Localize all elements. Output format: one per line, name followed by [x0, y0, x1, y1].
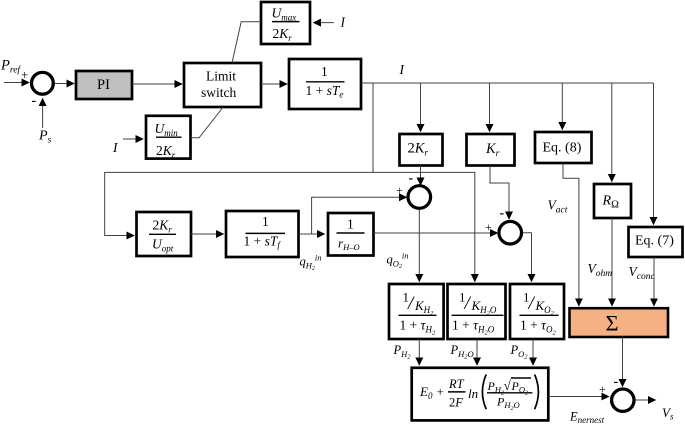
- svg-text:1 + sTe: 1 + sTe: [306, 83, 344, 100]
- svg-text:Vconc: Vconc: [629, 264, 656, 282]
- wire 2Kr/Uopt to 1/(1+sTf): [191, 233, 224, 235]
- block H2 transfer (1/KH2)/(1+tauH2): [389, 284, 444, 339]
- block 2Kr: [400, 134, 443, 166]
- wire I drop into R ohm: [611, 83, 613, 182]
- svg-text:RT: RT: [448, 377, 465, 391]
- svg-text:Ps: Ps: [38, 129, 52, 146]
- wire Eq7 output Vconc into Sigma: [653, 257, 655, 306]
- summing junction S3: [499, 221, 522, 244]
- block 1/(1+sTf): [226, 211, 299, 257]
- block 1/rH-O: [328, 213, 374, 256]
- svg-text:+: +: [396, 183, 403, 197]
- svg-text:PH2O: PH2O: [450, 343, 474, 361]
- svg-text:+: +: [599, 382, 606, 396]
- svg-text:1: 1: [347, 217, 354, 232]
- svg-text:qH2in: qH2in: [300, 253, 322, 273]
- wire P_ref into summing junction: [4, 82, 29, 84]
- wire S4 output Vs: [636, 399, 656, 401]
- wire P_s into S1: [42, 99, 44, 129]
- svg-text:PH2: PH2: [393, 343, 412, 361]
- wire I drop into Kr: [489, 83, 491, 132]
- summing junction S2: [408, 186, 431, 209]
- block O2 transfer (1/KO2)/(1+tauO2): [510, 284, 564, 339]
- block Umax/2Kr: [261, 2, 310, 44]
- block Sigma summation: [570, 308, 669, 337]
- svg-text:PI: PI: [97, 77, 110, 93]
- svg-text:Enernest: Enernest: [569, 410, 605, 424]
- svg-text:Eq. (7): Eq. (7): [635, 234, 674, 249]
- block Eq7: [629, 227, 683, 257]
- wire Tf output into 1/rH-O: [299, 233, 325, 235]
- svg-text:PO2: PO2: [510, 343, 529, 361]
- svg-text:+: +: [437, 384, 444, 399]
- svg-text:-: -: [409, 171, 414, 186]
- wire S1 to PI: [55, 83, 74, 85]
- svg-text:1 + sTf: 1 + sTf: [244, 234, 282, 251]
- svg-text:2F: 2F: [449, 396, 463, 410]
- wire Sigma output down to S4: [622, 337, 624, 387]
- wire I feedback drop and run to 2Kr/Uopt: [105, 83, 373, 236]
- wire S3 output into O2 block: [523, 233, 532, 282]
- svg-text:qO2in: qO2in: [387, 251, 409, 271]
- svg-text:I: I: [112, 140, 119, 155]
- svg-text:Vs: Vs: [662, 405, 674, 422]
- wire PI to Limit switch: [132, 83, 182, 85]
- svg-text:-: -: [32, 94, 37, 109]
- block H2O transfer (1/KH2O)/(1+tauH2O): [448, 284, 506, 339]
- wire S2 output down into H2 block: [418, 210, 420, 282]
- svg-text:Σ: Σ: [606, 311, 619, 336]
- block Eq8: [535, 132, 592, 163]
- wire 2Kr output down into S2: [420, 166, 422, 186]
- wire H2 block output into Nernst block: [418, 339, 420, 365]
- svg-text:1: 1: [321, 64, 328, 79]
- wire Kr output into S3: [490, 166, 509, 220]
- wire Umax to Limit switch (diagonal): [232, 22, 261, 63]
- wire Limit switch to transfer block Te: [261, 83, 287, 85]
- svg-text:Vohm: Vohm: [588, 261, 613, 279]
- svg-text:Pref: Pref: [0, 58, 21, 76]
- wire I input into Umax block: [314, 22, 335, 24]
- block R ohm: [594, 184, 631, 218]
- block Limit switch: [184, 63, 261, 107]
- wire I drop into Eq8: [561, 83, 563, 130]
- svg-text:switch: switch: [201, 85, 236, 100]
- block Umin/2Kr: [146, 116, 191, 160]
- block Nernst equation: [412, 368, 549, 421]
- svg-text:+: +: [21, 67, 28, 82]
- wire main current I bus: [361, 82, 654, 84]
- wire O2 block output into Nernst block: [532, 339, 534, 365]
- wire Nernst output to S4: [548, 396, 609, 398]
- wire H2O block output into Nernst block: [476, 339, 478, 365]
- svg-text:√: √: [504, 378, 512, 393]
- block Kr: [467, 134, 515, 166]
- svg-text:-: -: [500, 206, 505, 221]
- svg-text:1: 1: [262, 214, 269, 229]
- block PI controller: [76, 71, 132, 99]
- summing junction S1: [32, 72, 54, 94]
- wire I drop into Eq7: [653, 83, 655, 225]
- wire Umin to Limit switch (diagonal): [191, 107, 224, 138]
- svg-text:Vact: Vact: [548, 198, 568, 216]
- svg-text:ln: ln: [468, 386, 478, 401]
- svg-text:+: +: [485, 220, 492, 234]
- wire Eq8 output Vact into Sigma: [563, 163, 579, 306]
- wire I input into Umin block: [123, 138, 143, 140]
- block 2Kr/Uopt: [137, 212, 192, 256]
- summing junction S4: [612, 389, 634, 411]
- wire feedback branch to H2O block: [373, 172, 475, 281]
- svg-text:Eq. (8): Eq. (8): [543, 141, 582, 156]
- wire rH-O output to summing junction S3: [374, 232, 498, 234]
- wire R ohm output Vohm into Sigma: [611, 218, 613, 306]
- wire qH2 branch up into summing junction S2: [312, 197, 407, 234]
- svg-text:-: -: [614, 375, 619, 390]
- block 1/(1+sTe): [289, 59, 361, 109]
- svg-text:I: I: [399, 62, 406, 77]
- wire I drop into 2Kr: [420, 83, 422, 132]
- svg-text:Limit: Limit: [206, 69, 236, 84]
- svg-text:I: I: [340, 15, 347, 30]
